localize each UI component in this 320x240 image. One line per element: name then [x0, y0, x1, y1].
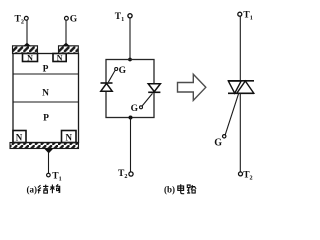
svg-text:T1: T1	[52, 171, 61, 182]
triac top bar	[228, 80, 254, 82]
T2 bond triangle	[23, 43, 31, 47]
thyristor VT2 triangle	[148, 84, 160, 92]
bottom-left N well	[13, 131, 26, 143]
svg-text:P: P	[43, 113, 49, 123]
caption glyph dian	[178, 184, 184, 193]
junction bottom	[129, 116, 133, 120]
thyristor VT1 gate circle	[115, 68, 118, 71]
svg-text:N: N	[16, 133, 23, 143]
terminal T2 circle	[129, 172, 133, 176]
svg-text:(b): (b)	[164, 185, 175, 195]
arrow	[178, 74, 206, 100]
junction top	[128, 58, 132, 62]
terminal T1 circle	[238, 12, 242, 16]
svg-text:T2: T2	[15, 14, 24, 25]
wire T2 to contact	[26, 20, 28, 44]
wire contact to T1	[48, 153, 50, 174]
svg-text:G: G	[119, 66, 127, 76]
junction line N/P2	[13, 101, 79, 103]
gate wire	[225, 94, 238, 135]
terminal T2 circle	[239, 172, 243, 176]
triac left triangle	[228, 81, 241, 93]
thyristor VT2 gate wire	[142, 93, 152, 106]
N well under G contact	[53, 54, 66, 62]
G bond triangle	[62, 43, 70, 47]
T1 bond triangle	[44, 148, 54, 153]
svg-text:T2: T2	[118, 169, 127, 180]
terminal T1 circle	[47, 173, 51, 177]
svg-text:G: G	[70, 15, 78, 25]
svg-text:T1: T1	[243, 11, 252, 22]
svg-text:T1: T1	[115, 12, 124, 23]
bottom-right N well	[62, 131, 77, 143]
svg-text:N: N	[27, 54, 33, 63]
caption glyph gou	[50, 184, 59, 193]
triac bottom bar	[228, 92, 254, 94]
caption glyph jie	[38, 185, 49, 194]
terminal T2 circle	[24, 16, 28, 20]
wire T1 down	[129, 18, 131, 60]
T1 bottom contact metallization	[10, 143, 79, 149]
thyristor VT1 cathode bar	[101, 82, 113, 84]
wire down to T2	[130, 118, 132, 172]
svg-text:P: P	[43, 64, 49, 74]
wire T1 to triac	[239, 16, 241, 81]
T2 contact metallization	[13, 46, 38, 54]
svg-text:T2: T2	[243, 170, 252, 181]
gate circle	[223, 135, 226, 138]
thyristor VT2 cathode bar	[148, 91, 160, 93]
svg-text:(a): (a)	[27, 185, 38, 195]
svg-text:N: N	[65, 133, 72, 143]
G contact metallization	[59, 46, 79, 54]
loop rectangle wire	[106, 60, 154, 118]
N well under T2 contact	[23, 54, 38, 62]
svg-text:N: N	[57, 54, 63, 63]
triac right triangle	[237, 81, 254, 93]
svg-text:G: G	[131, 104, 139, 114]
svg-text:N: N	[42, 88, 49, 98]
terminal T1 circle	[128, 14, 132, 18]
terminal G circle	[65, 16, 69, 20]
thyristor VT1 triangle	[101, 83, 112, 91]
thyristor VT1 gate wire	[108, 70, 115, 82]
caption glyph lu	[187, 185, 196, 193]
wire G to contact	[65, 20, 67, 44]
thyristor VT2 gate circle	[140, 106, 143, 109]
svg-text:G: G	[214, 137, 222, 148]
silicon body outline	[13, 54, 79, 143]
junction line P1/N	[13, 73, 79, 75]
wire triac to T2	[239, 93, 241, 172]
